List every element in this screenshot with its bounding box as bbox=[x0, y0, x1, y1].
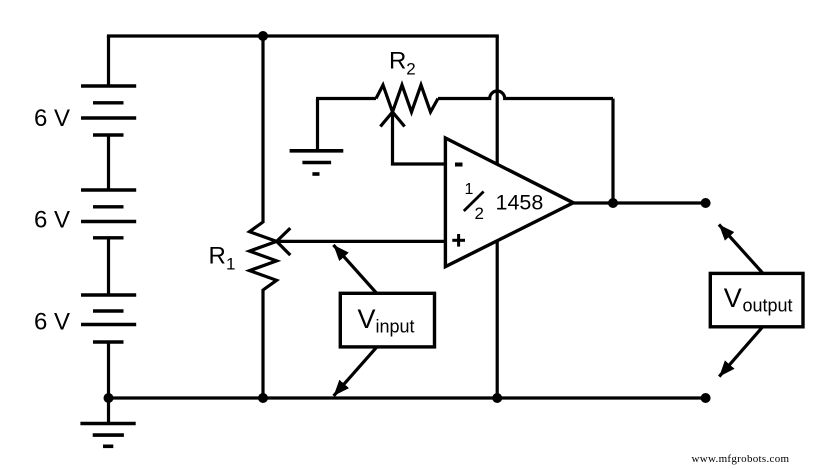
svg-text:6 V: 6 V bbox=[34, 105, 70, 132]
svg-text:V: V bbox=[724, 283, 742, 313]
battery B3 6V bbox=[81, 295, 136, 342]
op-amp U1 (1/2 1458) bbox=[445, 138, 573, 267]
svg-text:R: R bbox=[209, 243, 226, 270]
wire R1 bottom column bbox=[261, 289, 264, 398]
svg-text:output: output bbox=[743, 296, 793, 316]
wire V+ supply vertical (top rail corner down through op-amp to bottom rail) bbox=[496, 36, 499, 398]
node output terminal bbox=[701, 198, 711, 208]
wire R1 wiper to op-amp + input bbox=[277, 240, 446, 243]
resistor R1 (potentiometer, vertical zigzag) bbox=[250, 222, 277, 290]
node output / feedback junction bbox=[608, 198, 618, 208]
svg-text:www.mfgrobots.com: www.mfgrobots.com bbox=[692, 453, 790, 465]
Vinput label box bbox=[340, 293, 434, 347]
R1 wiper arrow barbs bbox=[277, 228, 291, 255]
svg-text:2: 2 bbox=[406, 59, 415, 78]
wire R2 wiper down and to op-amp - input bbox=[393, 112, 446, 164]
svg-text:1: 1 bbox=[226, 255, 235, 274]
wire top rail bbox=[107, 34, 499, 37]
label R1 bbox=[209, 243, 236, 274]
svg-text:2: 2 bbox=[475, 204, 484, 223]
svg-text:V: V bbox=[358, 304, 376, 334]
op-amp - input label bbox=[455, 163, 463, 167]
wire battery B3 to bottom rail bbox=[107, 342, 110, 398]
svg-text:1458: 1458 bbox=[496, 191, 544, 215]
battery B2 6V bbox=[81, 190, 136, 238]
svg-text:6 V: 6 V bbox=[34, 309, 70, 336]
node bottom rail terminal bbox=[701, 393, 711, 403]
wire battery B2-B3 bbox=[107, 238, 110, 296]
Voutput arrow lower bbox=[719, 327, 762, 377]
wire feedback from output node up to R2 bbox=[611, 99, 614, 204]
R2 wiper arrow barbs bbox=[380, 112, 404, 127]
node bottom rail / R1 bbox=[258, 393, 268, 403]
wire bottom rail bbox=[107, 396, 706, 399]
battery B1 6V bbox=[81, 86, 136, 135]
svg-text:R: R bbox=[389, 47, 406, 74]
Voutput arrow upper bbox=[719, 225, 763, 274]
wire R1 top column bbox=[261, 36, 264, 223]
node top rail / R1 junction bbox=[258, 31, 268, 41]
wire R2 left bbox=[316, 97, 376, 100]
wire battery column top bbox=[107, 36, 110, 87]
op-amp + input label bbox=[452, 234, 465, 247]
svg-text:input: input bbox=[376, 317, 415, 337]
ground (bottom left) bbox=[80, 398, 135, 446]
node bottom rail / supply bbox=[492, 393, 502, 403]
op-amp 1/2 label bbox=[464, 181, 484, 223]
Vinput arrow lower bbox=[334, 348, 377, 396]
svg-text:6 V: 6 V bbox=[34, 206, 70, 233]
wire battery B1-B2 bbox=[107, 135, 110, 191]
wire R2 right with hop over supply wire bbox=[438, 91, 613, 98]
wire output bbox=[573, 201, 706, 204]
Voutput label box bbox=[710, 273, 803, 326]
label R2 bbox=[389, 47, 416, 78]
svg-text:1: 1 bbox=[465, 181, 474, 198]
node bottom rail / battery bbox=[104, 393, 114, 403]
Vinput arrow upper bbox=[333, 245, 376, 293]
resistor R2 (potentiometer, horizontal zigzag) bbox=[376, 85, 438, 112]
ground (R2 left) bbox=[290, 99, 344, 175]
